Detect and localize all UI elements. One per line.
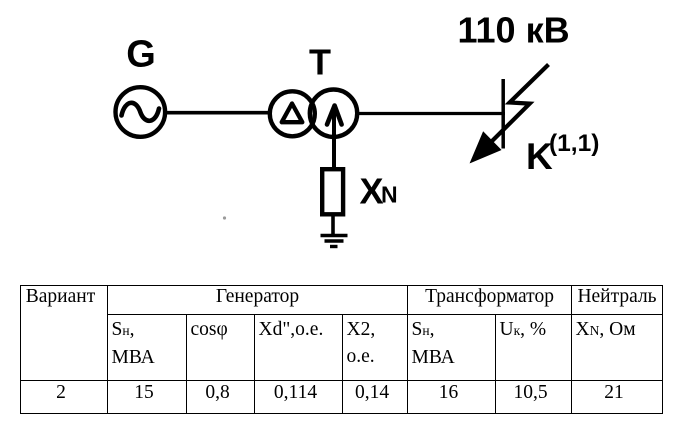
data table	[20, 285, 663, 414]
generator G	[116, 87, 166, 137]
svg-text:N: N	[381, 182, 398, 208]
svg-text:110 кВ: 110 кВ	[458, 10, 570, 51]
svg-text:X: X	[360, 171, 384, 212]
wire generator to transformer	[163, 111, 271, 115]
label XN	[360, 171, 398, 212]
svg-text:T: T	[309, 42, 331, 83]
wire transformer to 110 kV line	[357, 112, 505, 115]
wire transformer neutral to reactor XN	[332, 108, 336, 168]
fault K(1,1) lightning arrow	[471, 65, 549, 163]
label K(1,1)	[526, 130, 599, 177]
svg-text:G: G	[126, 34, 156, 76]
svg-text:(1,1): (1,1)	[549, 130, 599, 157]
transformer T secondary winding (wye arrow)	[310, 90, 357, 137]
transformer T primary winding (delta)	[270, 91, 315, 136]
wire reactor to ground	[331, 216, 335, 235]
ground	[321, 236, 348, 247]
110 kV line end bar	[501, 79, 505, 149]
reactor XN	[322, 169, 343, 214]
